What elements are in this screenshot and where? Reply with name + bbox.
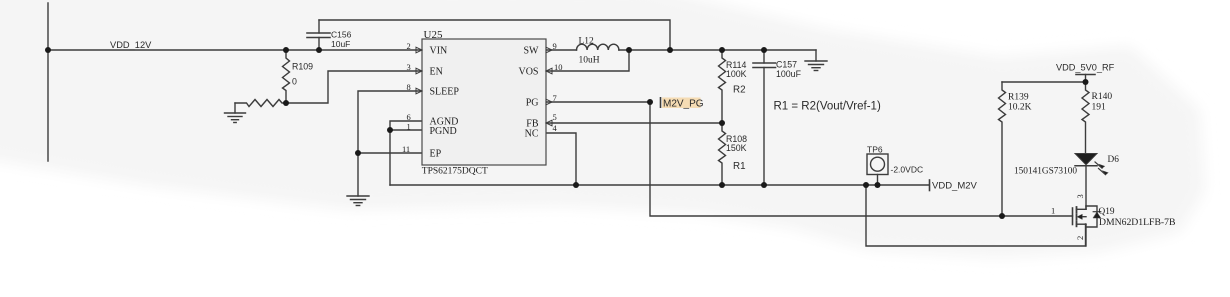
svg-text:R1: R1: [733, 161, 746, 172]
svg-text:100K: 100K: [726, 69, 747, 79]
svg-text:5: 5: [553, 112, 557, 122]
svg-text:2: 2: [407, 41, 411, 51]
node R109 top: [283, 47, 289, 53]
inductor L12: [577, 44, 619, 50]
LED D6: [1075, 154, 1108, 210]
svg-text:D6: D6: [1108, 155, 1120, 165]
wire output rail to ground corner: [619, 49, 816, 51]
capacitor C156: [307, 20, 330, 50]
svg-text:R2: R2: [733, 84, 746, 95]
label C156 value: [331, 30, 352, 49]
label D6: [1014, 155, 1119, 177]
node VDD_12V bus: [45, 47, 51, 53]
body diode of Q19: [1086, 206, 1097, 227]
svg-text:VOS: VOS: [518, 66, 538, 77]
pin arrow EN: [416, 68, 422, 74]
svg-text:0: 0: [292, 77, 297, 87]
svg-text:Q19: Q19: [1099, 207, 1115, 217]
wire SLEEP: [358, 91, 422, 196]
wire PGND: [390, 130, 422, 185]
pin arrow VIN: [416, 47, 422, 53]
wire VOS loop: [546, 50, 629, 71]
svg-text:10: 10: [554, 62, 563, 72]
svg-text:3: 3: [407, 62, 411, 72]
svg-text:10.2K: 10.2K: [1008, 102, 1032, 112]
label R139 value: [1008, 92, 1032, 112]
net tick VDD_M2V: [929, 180, 931, 191]
svg-text:R1 = R2(Vout/Vref-1): R1 = R2(Vout/Vref-1): [774, 101, 881, 113]
svg-text:3: 3: [1075, 194, 1085, 198]
node VOS tap: [626, 47, 632, 53]
svg-text:10uH: 10uH: [579, 55, 600, 65]
node TP6 on rail: [875, 182, 881, 188]
svg-text:8: 8: [407, 82, 411, 92]
svg-text:EN: EN: [430, 66, 443, 77]
label R114 value: [726, 60, 747, 96]
svg-text:VDD_5V0_RF: VDD_5V0_RF: [1056, 63, 1115, 73]
wire NC drop: [546, 133, 576, 185]
svg-text:150141GS73100: 150141GS73100: [1014, 166, 1077, 176]
ground (SLEEP/EP): [347, 196, 369, 206]
svg-text:6: 6: [407, 112, 411, 122]
wire SW output: [546, 49, 577, 51]
svg-text:R139: R139: [1008, 92, 1029, 102]
node R108 bottom rail: [719, 182, 725, 188]
pin arrow SLEEP: [416, 88, 422, 94]
resistor (series to ground, R109 net) horizontal zigzag: [235, 100, 286, 107]
IC U25 body: [422, 39, 546, 165]
svg-text:TPS62175DQCT: TPS62175DQCT: [422, 166, 488, 176]
svg-text:VIN: VIN: [430, 45, 448, 56]
ground (left of R109): [225, 103, 246, 123]
wire FB: [546, 122, 722, 124]
ground (output rail, right): [805, 50, 827, 71]
svg-text:U25: U25: [424, 29, 443, 41]
wire EP: [358, 152, 422, 154]
svg-text:L12: L12: [579, 37, 595, 47]
node FB divider: [719, 120, 725, 126]
svg-text:10uF: 10uF: [331, 39, 350, 49]
node EP/SLEEP: [355, 150, 361, 156]
label R109 value: [292, 61, 313, 86]
resistor R139: [999, 82, 1006, 216]
svg-text:SLEEP: SLEEP: [430, 86, 460, 97]
node R114 top: [719, 47, 725, 53]
svg-text:191: 191: [1092, 102, 1107, 112]
svg-text:SW: SW: [524, 45, 540, 56]
label R140 value: [1092, 92, 1113, 113]
wire PGND/output bottom rail VDD_M2V: [390, 184, 929, 186]
net label M2V_PG: [661, 97, 704, 109]
svg-text:1: 1: [1051, 206, 1055, 216]
svg-text:M2V_PG: M2V_PG: [663, 98, 704, 109]
svg-text:VDD_12V: VDD_12V: [110, 40, 152, 50]
wire PG: [546, 101, 650, 103]
node AGND/PGND: [387, 127, 393, 133]
node C156 bottom: [316, 47, 322, 53]
node C157 top: [761, 47, 767, 53]
svg-text:150K: 150K: [726, 143, 747, 153]
wire top loop from C156 to SW node: [319, 20, 670, 50]
svg-text:9: 9: [553, 41, 557, 51]
node rail to Q19 source: [863, 182, 869, 188]
svg-text:C157: C157: [776, 59, 797, 69]
test point TP6: [867, 154, 888, 185]
svg-text:PGND: PGND: [430, 126, 457, 137]
svg-text:PG: PG: [526, 97, 539, 108]
svg-text:7: 7: [553, 93, 557, 103]
resistor R108: [719, 123, 726, 185]
node VDD_5V0_RF / R140: [1083, 79, 1089, 85]
svg-text:R109: R109: [292, 61, 313, 71]
svg-text:DMN62D1LFB-7B: DMN62D1LFB-7B: [1099, 217, 1175, 228]
resistor R114: [719, 50, 726, 123]
label L12 value: [579, 37, 600, 66]
power bar VDD_5V0_RF: [1002, 75, 1095, 83]
node C157 bottom rail: [761, 182, 767, 188]
wire PG vertical to gate rail: [650, 102, 1073, 216]
pin arrow PG: [546, 99, 552, 105]
pin arrows U25: [416, 47, 552, 126]
node PG net: [647, 99, 653, 105]
node NC drop on rail: [573, 182, 579, 188]
svg-text:11: 11: [402, 144, 410, 154]
label Q19: [1051, 194, 1175, 240]
svg-text:100uF: 100uF: [776, 69, 802, 79]
wire EN to R109 node: [286, 71, 422, 103]
svg-text:-2.0VDC: -2.0VDC: [891, 164, 924, 174]
svg-text:VDD_M2V: VDD_M2V: [932, 180, 978, 191]
node top loop / SW rail: [667, 47, 673, 53]
pin arrow FB: [546, 120, 552, 126]
resistor R109: [283, 50, 290, 103]
label C157 value: [776, 59, 802, 79]
pin arrow VOS: [546, 68, 552, 74]
wire AGND: [390, 121, 422, 130]
left bus vertical wire: [47, 3, 49, 161]
label R108 value: [726, 134, 747, 172]
svg-text:NC: NC: [525, 128, 539, 139]
pin arrow SW: [546, 47, 552, 53]
resistor R140: [1082, 82, 1089, 154]
IC U25 labels: [402, 29, 563, 176]
node R109 bottom / EN: [283, 100, 289, 106]
svg-text:TP6: TP6: [867, 145, 883, 155]
wire VDD_12V main rail: [48, 49, 422, 51]
svg-text:R140: R140: [1092, 92, 1113, 102]
capacitor C157: [753, 50, 776, 185]
node R139 bottom / gate rail: [999, 213, 1005, 219]
svg-text:EP: EP: [430, 148, 442, 159]
transistor Q19 NMOS: [1073, 206, 1101, 246]
svg-text:1: 1: [407, 121, 411, 131]
svg-text:2: 2: [1075, 236, 1085, 240]
wire to Q19 source loop: [866, 185, 1086, 246]
